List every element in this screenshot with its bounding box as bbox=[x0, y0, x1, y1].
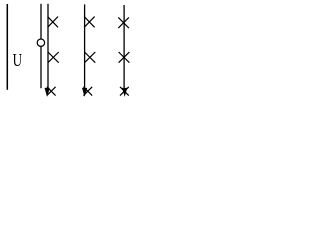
lamp cross X1 on branch 1 (top row) bbox=[48, 17, 58, 28]
lamp cross X5 on branch 2 (middle row) bbox=[85, 52, 96, 63]
wire: left source conductor bbox=[6, 4, 8, 90]
current arrowhead on branch 1 bbox=[45, 88, 50, 97]
wire: second conductor lower segment bbox=[40, 47, 42, 88]
current arrowhead on branch 2 bbox=[82, 88, 87, 97]
lamp cross X8 on branch 3 (middle row) bbox=[119, 52, 130, 63]
wire: branch line 3 bbox=[123, 5, 125, 93]
lamp cross X2 on branch 1 (middle row) bbox=[48, 52, 59, 63]
meter circle on second conductor bbox=[37, 39, 44, 46]
wire: branch line 2 bbox=[84, 4, 86, 92]
svg-text:U: U bbox=[13, 50, 22, 70]
lamp cross X3 on branch 1 (bottom row) bbox=[47, 87, 56, 96]
lamp cross X6 on branch 2 (bottom row) bbox=[83, 87, 92, 96]
lamp cross X9 on branch 3 (bottom row) bbox=[120, 87, 129, 96]
wire: second conductor upper segment bbox=[40, 4, 42, 39]
lamp cross X7 on branch 3 (top row) bbox=[118, 17, 129, 28]
wire: branch line 1 bbox=[47, 4, 49, 93]
lamp cross X4 on branch 2 (top row) bbox=[84, 17, 94, 28]
current arrowhead on branch 3 bbox=[122, 88, 127, 97]
